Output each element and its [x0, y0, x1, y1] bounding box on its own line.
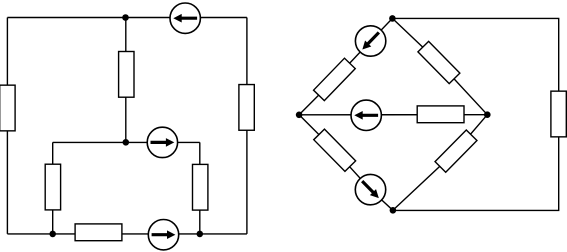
current source I1 (top, arrow left) — [170, 3, 200, 33]
wire top (left circuit) — [7, 17, 247, 19]
resistor R3 (right rail) — [239, 85, 254, 131]
node L (left) — [296, 112, 303, 119]
node T (top) — [389, 15, 396, 22]
wire branch T-L — [299, 18, 392, 114]
resistor R10 (bottom-right diagonal) — [435, 130, 477, 172]
current source I2 (inner loop, arrow right) — [147, 127, 177, 157]
wire bottom (left circuit) — [7, 233, 247, 235]
wire inner loop right — [199, 142, 201, 234]
resistor R7 (top-left diagonal) — [314, 58, 356, 100]
wire branch L-R (middle) — [299, 114, 487, 116]
resistor R4 (inner loop left) — [45, 164, 60, 210]
wire inner loop top — [53, 141, 200, 143]
current source I3 (bottom, arrow right) — [148, 220, 178, 250]
resistor R5 (inner loop right) — [193, 164, 208, 210]
wire left rail (left circuit) — [6, 18, 8, 234]
node junction dot bottom right — [197, 231, 204, 238]
node B (bottom) — [390, 207, 397, 214]
node junction dot bottom left — [49, 231, 56, 238]
node junction dot top — [122, 14, 129, 21]
node R (right) — [484, 111, 491, 118]
current source I5 (middle branch, arrow left) — [351, 100, 381, 130]
resistor R2 (middle branch) — [119, 52, 134, 98]
resistor R9 (bottom-left diagonal) — [314, 129, 356, 171]
node junction dot inner top — [123, 139, 130, 146]
wire middle branch — [125, 18, 127, 143]
wire outer rail (top, right, bottom) — [392, 18, 558, 210]
resistor R1 (left rail) — [0, 85, 15, 131]
wire branch B-R — [393, 115, 487, 211]
resistor R12 (right rail) — [551, 91, 566, 137]
wire branch L-B — [299, 115, 393, 211]
wire right rail (left circuit) — [246, 18, 248, 234]
wire branch T-R — [392, 18, 487, 114]
current source I6 (bottom-left branch, arrow down-right) — [349, 168, 392, 211]
current source I4 (top-left branch, arrow down-left) — [349, 20, 392, 63]
resistor R6 (bottom horizontal) — [75, 224, 122, 241]
wire inner loop left — [52, 142, 54, 234]
resistor R11 (middle horizontal) — [417, 106, 464, 123]
resistor R8 (top-right diagonal) — [418, 41, 460, 83]
